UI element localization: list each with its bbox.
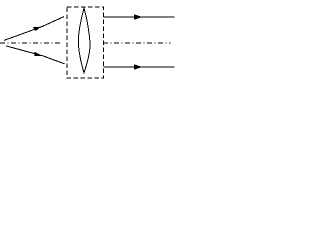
bottom output ray [103, 66, 174, 68]
optical axis right segment [103, 42, 170, 44]
upper ray arrowhead [33, 27, 41, 31]
lower incident ray [6, 46, 65, 64]
optical axis left segment [0, 42, 62, 44]
upper incident ray [4, 17, 64, 41]
top output ray [103, 16, 174, 18]
lower ray arrowhead [34, 52, 42, 56]
bottom output ray arrowhead [134, 64, 142, 69]
dashed lens box [67, 7, 104, 78]
top output ray arrowhead [134, 14, 142, 19]
lens L [78, 8, 90, 73]
